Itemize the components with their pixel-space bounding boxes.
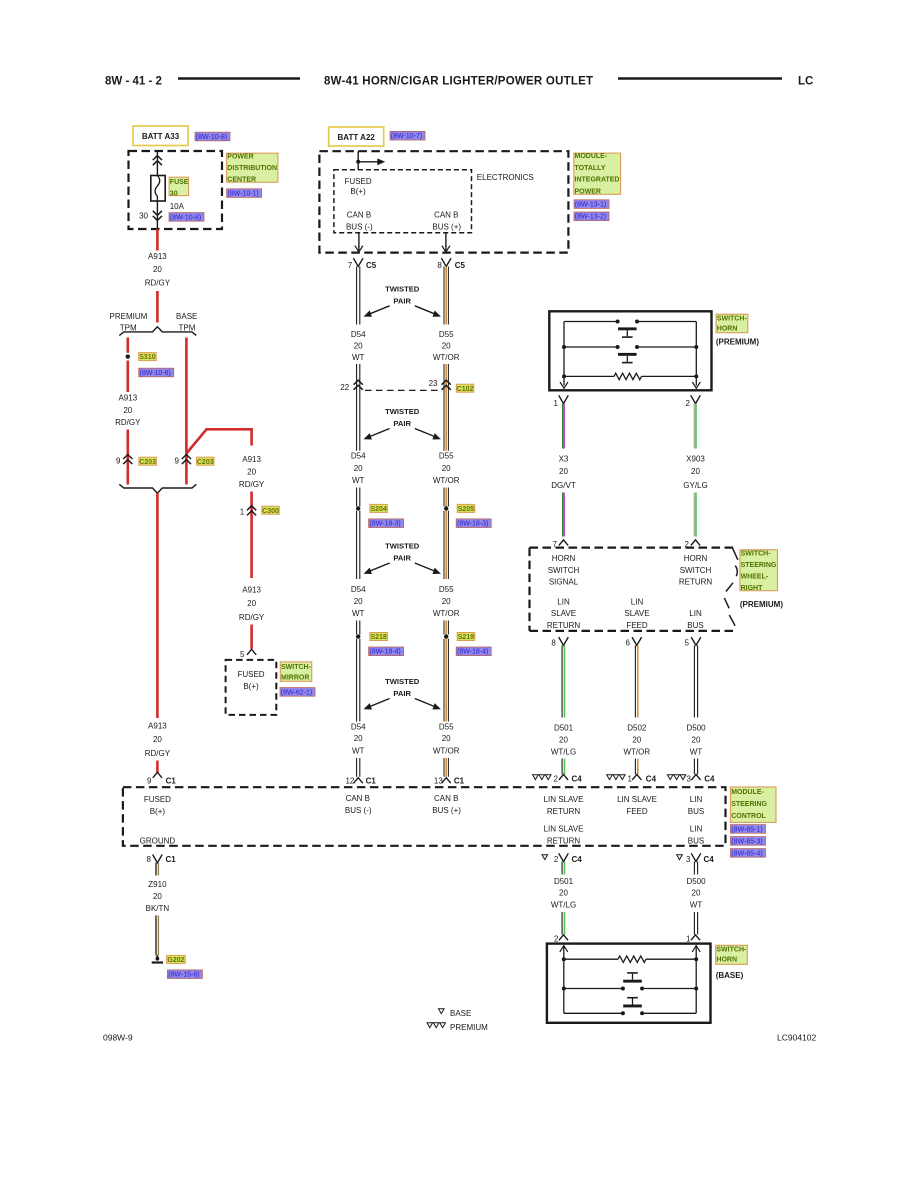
svg-text:D502: D502 xyxy=(627,724,647,733)
svg-text:BUS (+): BUS (+) xyxy=(432,806,461,815)
wire D54 segment xyxy=(356,364,358,451)
svg-text:BUS: BUS xyxy=(687,621,703,630)
wire D501 xyxy=(561,645,563,717)
svg-text:Z910: Z910 xyxy=(148,880,167,889)
label (8W-65-3) xyxy=(731,837,766,846)
svg-text:SWITCH: SWITCH xyxy=(680,566,712,575)
svg-text:2: 2 xyxy=(554,775,559,784)
connector pin 7 into steering wheel switch xyxy=(559,540,568,546)
svg-text:X3: X3 xyxy=(559,455,569,464)
svg-text:20: 20 xyxy=(354,341,363,350)
svg-text:20: 20 xyxy=(442,341,451,350)
svg-text:DISTRIBUTION: DISTRIBUTION xyxy=(227,165,277,172)
svg-text:BUS: BUS xyxy=(688,836,704,845)
svg-text:ELECTRONICS: ELECTRONICS xyxy=(477,173,534,182)
svg-text:INTEGRATED: INTEGRATED xyxy=(575,177,620,184)
svg-text:(8W-18-4): (8W-18-4) xyxy=(369,649,400,656)
connector pin 9 C1 xyxy=(153,772,162,778)
svg-text:A913: A913 xyxy=(242,586,261,595)
svg-text:PAIR: PAIR xyxy=(393,689,411,698)
svg-text:PAIR: PAIR xyxy=(393,296,411,305)
wire D54 segment xyxy=(356,639,358,722)
svg-text:20: 20 xyxy=(691,467,700,476)
svg-text:TPM: TPM xyxy=(120,324,137,333)
svg-text:C1: C1 xyxy=(366,776,377,785)
svg-text:2: 2 xyxy=(686,399,691,408)
svg-text:S218: S218 xyxy=(370,634,386,641)
wire xyxy=(250,625,253,649)
svg-text:20: 20 xyxy=(559,889,568,898)
svg-text:FUSED: FUSED xyxy=(345,177,372,186)
svg-text:WT/OR: WT/OR xyxy=(623,748,650,757)
wire D500 xyxy=(693,645,695,717)
svg-text:S219: S219 xyxy=(458,634,474,641)
svg-text:(PREMIUM): (PREMIUM) xyxy=(716,337,759,346)
svg-text:CONTROL: CONTROL xyxy=(731,813,766,820)
svg-text:20: 20 xyxy=(692,736,701,745)
svg-text:C4: C4 xyxy=(704,775,715,784)
svg-text:SWITCH-: SWITCH- xyxy=(741,550,772,557)
svg-text:(BASE): (BASE) xyxy=(716,971,744,980)
right rail xyxy=(695,947,697,1014)
switch-horn premium box xyxy=(549,311,711,390)
svg-text:2: 2 xyxy=(554,855,559,864)
splice brace bottom xyxy=(119,484,196,493)
svg-text:LIN: LIN xyxy=(557,598,570,607)
svg-text:LIN: LIN xyxy=(631,598,644,607)
svg-text:23: 23 xyxy=(429,379,438,388)
svg-text:20: 20 xyxy=(559,736,568,745)
header rule left xyxy=(178,77,300,79)
svg-text:POWER: POWER xyxy=(575,189,601,196)
svg-text:D55: D55 xyxy=(439,452,454,461)
label (8W-13-1) xyxy=(574,200,609,209)
connector chevrons into fuse xyxy=(153,156,162,161)
legend base marker xyxy=(439,1009,445,1014)
svg-text:30: 30 xyxy=(139,212,148,221)
svg-text:POWER: POWER xyxy=(227,154,253,161)
svg-text:D55: D55 xyxy=(439,585,454,594)
wire A913 from PDC xyxy=(156,229,159,251)
header rule right xyxy=(618,77,782,79)
svg-text:(8W-10-8): (8W-10-8) xyxy=(196,134,227,141)
connector C203 base pin 9 xyxy=(182,455,191,460)
fuse label FUSE 30 xyxy=(169,177,189,195)
svg-text:WHEEL-: WHEEL- xyxy=(741,574,769,581)
svg-text:FEED: FEED xyxy=(626,807,648,816)
power distribution center box xyxy=(129,151,223,229)
horn switch row 1 xyxy=(564,321,618,323)
ground G202 xyxy=(156,955,159,961)
legend premium marker xyxy=(427,1023,433,1028)
svg-text:2: 2 xyxy=(554,935,559,944)
label SWITCH-HORN base xyxy=(716,945,748,964)
svg-text:(8W-65-4): (8W-65-4) xyxy=(731,850,762,857)
svg-text:(8W-65-1): (8W-65-1) xyxy=(731,826,762,833)
svg-text:C102: C102 xyxy=(457,386,474,393)
svg-text:(8W-13-2): (8W-13-2) xyxy=(575,214,606,221)
label SWITCH-STEERING WHEEL-RIGHT xyxy=(740,550,778,591)
svg-text:098W-9: 098W-9 xyxy=(103,1033,133,1043)
svg-text:TWISTED: TWISTED xyxy=(385,542,420,551)
svg-text:HORN: HORN xyxy=(552,554,576,563)
splice brace top xyxy=(119,327,196,336)
svg-text:20: 20 xyxy=(692,889,701,898)
svg-text:BASE: BASE xyxy=(450,1009,471,1018)
svg-text:G202: G202 xyxy=(167,957,184,964)
label SWITCH-MIRROR xyxy=(280,662,311,681)
svg-text:TPM: TPM xyxy=(179,324,196,333)
label POWER DISTRIBUTION CENTER xyxy=(227,153,278,182)
svg-text:12: 12 xyxy=(345,776,354,785)
label (8W-10-1) xyxy=(227,189,262,198)
svg-text:WT: WT xyxy=(352,353,365,362)
svg-text:8: 8 xyxy=(551,639,556,648)
wire D501 xyxy=(561,862,563,875)
svg-text:SWITCH: SWITCH xyxy=(548,566,580,575)
wire X903 xyxy=(693,404,695,449)
svg-text:3: 3 xyxy=(686,855,691,864)
svg-text:CAN B: CAN B xyxy=(434,210,458,219)
svg-text:(8W-13-1): (8W-13-1) xyxy=(575,202,606,209)
wire D500 xyxy=(693,912,695,935)
svg-text:C1: C1 xyxy=(454,776,465,785)
svg-text:FUSED: FUSED xyxy=(144,795,171,804)
svg-text:C203: C203 xyxy=(197,459,214,466)
svg-text:20: 20 xyxy=(354,734,363,743)
svg-text:WT/LG: WT/LG xyxy=(551,748,576,757)
svg-text:(8W-65-3): (8W-65-3) xyxy=(731,838,762,845)
svg-text:HORN: HORN xyxy=(717,326,738,333)
svg-text:8: 8 xyxy=(437,261,442,270)
svg-text:PAIR: PAIR xyxy=(393,554,411,563)
svg-text:1: 1 xyxy=(554,399,559,408)
svg-text:RD/GY: RD/GY xyxy=(145,279,171,288)
svg-text:RETURN: RETURN xyxy=(547,836,581,845)
svg-text:LIN: LIN xyxy=(690,795,703,804)
wire D55 segment xyxy=(443,267,445,325)
svg-text:SLAVE: SLAVE xyxy=(551,609,576,618)
wire D54 segment xyxy=(356,488,358,507)
wire X3 xyxy=(562,493,564,537)
svg-text:C203: C203 xyxy=(139,459,156,466)
left rail xyxy=(563,947,565,1014)
wire D502 xyxy=(634,759,636,775)
wire premium arm xyxy=(127,361,130,393)
label (8W-10-8) xyxy=(169,213,204,222)
svg-text:C4: C4 xyxy=(572,855,583,864)
svg-text:LIN SLAVE: LIN SLAVE xyxy=(617,795,657,804)
premium markers pin 1 C4 xyxy=(607,775,613,780)
svg-text:B(+): B(+) xyxy=(150,807,166,816)
label (8W-65-1) xyxy=(731,825,766,834)
svg-text:A913: A913 xyxy=(118,394,137,403)
svg-text:GROUND: GROUND xyxy=(140,837,176,846)
splice S219 xyxy=(444,634,448,638)
svg-text:TWISTED: TWISTED xyxy=(385,407,420,416)
svg-text:HORN: HORN xyxy=(716,957,737,964)
svg-text:B(+): B(+) xyxy=(243,682,259,691)
svg-text:(8W-10-7): (8W-10-7) xyxy=(391,133,422,140)
svg-text:1: 1 xyxy=(240,507,245,516)
svg-text:WT/LG: WT/LG xyxy=(551,901,576,910)
wire X3 xyxy=(562,404,564,449)
svg-text:WT: WT xyxy=(352,747,365,756)
svg-text:TWISTED: TWISTED xyxy=(385,677,420,686)
svg-text:RETURN: RETURN xyxy=(547,807,581,816)
svg-text:(8W-15-8): (8W-15-8) xyxy=(168,972,199,979)
svg-text:BATT A22: BATT A22 xyxy=(338,133,376,142)
svg-text:STEERING: STEERING xyxy=(741,562,777,569)
svg-text:(PREMIUM): (PREMIUM) xyxy=(740,600,783,609)
svg-text:8W-41 HORN/CIGAR LIGHTER/POWER: 8W-41 HORN/CIGAR LIGHTER/POWER OUTLET xyxy=(324,76,593,88)
svg-text:C1: C1 xyxy=(166,777,177,786)
svg-text:BUS (+): BUS (+) xyxy=(432,223,461,232)
svg-text:D54: D54 xyxy=(351,723,366,732)
svg-text:20: 20 xyxy=(442,597,451,606)
svg-text:BATT A33: BATT A33 xyxy=(142,132,180,141)
svg-text:3: 3 xyxy=(687,775,692,784)
battery feed BATT A33 xyxy=(133,126,188,146)
svg-text:WT: WT xyxy=(352,609,365,618)
svg-text:D500: D500 xyxy=(686,724,706,733)
svg-text:20: 20 xyxy=(153,892,162,901)
svg-text:WT: WT xyxy=(690,901,703,910)
junction node xyxy=(356,160,360,164)
svg-text:BUS: BUS xyxy=(688,807,704,816)
svg-text:SWITCH-: SWITCH- xyxy=(281,664,312,671)
premium markers pin 2 C4 xyxy=(533,775,539,780)
svg-text:8: 8 xyxy=(147,855,152,864)
svg-text:A913: A913 xyxy=(242,455,261,464)
wire xyxy=(250,492,253,579)
svg-text:22: 22 xyxy=(340,383,349,392)
svg-text:BK/TN: BK/TN xyxy=(146,904,170,913)
torn edge marks xyxy=(732,548,738,560)
svg-text:20: 20 xyxy=(153,735,162,744)
svg-text:LIN: LIN xyxy=(689,609,702,618)
wire D501 xyxy=(561,912,563,935)
svg-text:LIN SLAVE: LIN SLAVE xyxy=(544,795,584,804)
svg-text:S205: S205 xyxy=(458,506,474,513)
connector C102 pins 22 23 xyxy=(354,380,363,385)
splice S205 xyxy=(444,506,448,510)
svg-text:D55: D55 xyxy=(439,723,454,732)
svg-text:(8W-10-8): (8W-10-8) xyxy=(170,214,201,221)
svg-text:RD/GY: RD/GY xyxy=(239,613,265,622)
svg-text:20: 20 xyxy=(123,406,132,415)
switch-horn base box xyxy=(547,944,711,1023)
splice S204 xyxy=(356,506,360,510)
internal bus arrow xyxy=(358,161,377,163)
label MODULE-STEERING CONTROL xyxy=(731,787,777,822)
TIPM outer box xyxy=(319,151,568,252)
svg-text:20: 20 xyxy=(247,599,256,608)
svg-text:B(+): B(+) xyxy=(350,187,366,196)
svg-text:RIGHT: RIGHT xyxy=(741,585,764,592)
resistor row xyxy=(564,958,618,960)
splice S310 xyxy=(126,354,130,358)
horn switch row 1 xyxy=(564,988,623,990)
svg-text:GY/LG: GY/LG xyxy=(683,481,707,490)
svg-text:FUSED: FUSED xyxy=(237,670,264,679)
wire D55 segment xyxy=(443,364,445,451)
svg-text:BASE: BASE xyxy=(176,312,197,321)
svg-text:BUS (-): BUS (-) xyxy=(345,806,372,815)
svg-text:MODULE-: MODULE- xyxy=(575,153,608,160)
svg-text:HORN: HORN xyxy=(684,554,708,563)
svg-text:C4: C4 xyxy=(572,775,583,784)
switch-mirror box xyxy=(226,660,277,715)
svg-text:1: 1 xyxy=(628,775,633,784)
svg-text:D54: D54 xyxy=(351,585,366,594)
connector C203 premium pin 9 xyxy=(123,455,132,460)
switch-steering wheel right box xyxy=(530,546,734,548)
svg-text:STEERING: STEERING xyxy=(731,801,767,808)
svg-text:5: 5 xyxy=(685,639,690,648)
TIPM electronics box xyxy=(334,170,472,233)
svg-text:C4: C4 xyxy=(646,775,657,784)
svg-text:CENTER: CENTER xyxy=(227,177,256,184)
wire D54 segment xyxy=(356,758,358,777)
svg-text:TWISTED: TWISTED xyxy=(385,284,420,293)
svg-text:WT/OR: WT/OR xyxy=(433,747,460,756)
label (8W-65-4) xyxy=(731,849,766,858)
connector pin 1 into base horn switch xyxy=(691,935,700,941)
wire D54 segment xyxy=(356,511,358,579)
wire Z910 xyxy=(155,916,157,956)
svg-text:7: 7 xyxy=(348,261,353,270)
label (8W-62-1) xyxy=(280,688,315,697)
TIPM internal feed wire xyxy=(357,151,359,170)
svg-text:S204: S204 xyxy=(370,506,386,513)
main wire A913 down xyxy=(156,493,159,718)
svg-text:20: 20 xyxy=(153,265,162,274)
internal wire CAN B minus xyxy=(358,233,360,252)
premium markers pin 3 C4 xyxy=(667,775,673,780)
horn switch row 2 xyxy=(564,1012,623,1014)
connector pin 2 into base horn switch xyxy=(559,935,568,941)
svg-text:20: 20 xyxy=(442,464,451,473)
svg-text:RD/GY: RD/GY xyxy=(239,480,265,489)
svg-text:9: 9 xyxy=(147,777,152,786)
left rail xyxy=(563,322,565,386)
wire D55 segment xyxy=(443,758,445,777)
wire D55 segment xyxy=(443,639,445,722)
horn switch row 2 xyxy=(564,346,618,348)
wire premium arm xyxy=(127,338,130,353)
svg-text:SLAVE: SLAVE xyxy=(624,609,649,618)
right rail xyxy=(695,322,697,386)
wire D55 segment xyxy=(443,621,445,635)
svg-text:SIGNAL: SIGNAL xyxy=(549,578,579,587)
battery feed BATT A22 xyxy=(329,127,384,146)
wire D501 xyxy=(561,759,563,775)
svg-text:20: 20 xyxy=(632,736,641,745)
wire D54 segment xyxy=(356,621,358,635)
svg-text:PAIR: PAIR xyxy=(393,419,411,428)
wire inside PDC xyxy=(156,151,158,176)
label MODULE-TOTALLY INTEGRATED POWER xyxy=(574,153,621,194)
label SWITCH-HORN xyxy=(716,314,748,333)
svg-text:C1: C1 xyxy=(166,855,177,864)
svg-text:D501: D501 xyxy=(554,724,574,733)
wire A913 xyxy=(156,291,159,323)
svg-text:A913: A913 xyxy=(148,721,167,730)
svg-text:D501: D501 xyxy=(554,877,574,886)
label (8W-10-8) xyxy=(139,368,174,377)
svg-text:20: 20 xyxy=(442,734,451,743)
svg-text:5: 5 xyxy=(240,650,245,659)
svg-text:FEED: FEED xyxy=(626,621,648,630)
svg-text:8W - 41 - 2: 8W - 41 - 2 xyxy=(105,76,162,88)
wire Z910 xyxy=(155,863,157,876)
svg-text:CAN B: CAN B xyxy=(347,210,371,219)
svg-text:WT/OR: WT/OR xyxy=(433,609,460,618)
label (8W-13-2) xyxy=(574,212,609,221)
svg-text:MIRROR: MIRROR xyxy=(281,674,309,681)
module-steering control box xyxy=(123,787,726,846)
svg-text:PREMIUM: PREMIUM xyxy=(450,1023,488,1032)
svg-text:WT/OR: WT/OR xyxy=(433,476,460,485)
svg-text:CAN B: CAN B xyxy=(434,794,458,803)
svg-text:C5: C5 xyxy=(366,261,377,270)
svg-text:9: 9 xyxy=(175,457,180,466)
svg-text:D500: D500 xyxy=(686,877,706,886)
label (8W-10-7) xyxy=(390,131,425,140)
svg-text:MODULE-: MODULE- xyxy=(731,789,764,796)
svg-text:(8W-18-4): (8W-18-4) xyxy=(457,649,488,656)
base marker pin 2 C4 xyxy=(542,855,548,860)
svg-text:TOTALLY: TOTALLY xyxy=(575,165,606,172)
base marker pin 3 C4 xyxy=(677,855,683,860)
label (8W-10-8) xyxy=(195,132,230,141)
svg-text:(8W-10-8): (8W-10-8) xyxy=(140,370,171,377)
svg-text:RD/GY: RD/GY xyxy=(115,418,141,427)
svg-text:6: 6 xyxy=(626,639,631,648)
splice S218 xyxy=(356,634,360,638)
svg-text:(8W-18-3): (8W-18-3) xyxy=(369,521,400,528)
wire D54 segment xyxy=(356,267,358,325)
svg-text:9: 9 xyxy=(116,457,121,466)
svg-text:20: 20 xyxy=(247,468,256,477)
wire base arm xyxy=(185,338,188,485)
wire D55 segment xyxy=(443,488,445,507)
svg-text:13: 13 xyxy=(434,776,443,785)
svg-text:RETURN: RETURN xyxy=(679,578,713,587)
svg-text:RD/GY: RD/GY xyxy=(145,749,171,758)
wire xyxy=(156,761,159,774)
wire D55 segment xyxy=(443,511,445,579)
connector pin 2 into steering wheel switch xyxy=(691,540,700,546)
svg-text:BUS (-): BUS (-) xyxy=(346,223,373,232)
svg-text:PREMIUM: PREMIUM xyxy=(110,312,148,321)
svg-text:D54: D54 xyxy=(351,452,366,461)
svg-text:20: 20 xyxy=(559,467,568,476)
wire D500 xyxy=(693,759,695,775)
svg-text:SWITCH-: SWITCH- xyxy=(716,947,747,954)
svg-text:A913: A913 xyxy=(148,252,167,261)
svg-text:C5: C5 xyxy=(455,261,466,270)
svg-text:X903: X903 xyxy=(686,455,705,464)
svg-text:LIN SLAVE: LIN SLAVE xyxy=(544,824,584,833)
svg-text:20: 20 xyxy=(354,464,363,473)
fuse F30 xyxy=(151,176,165,202)
connector chevrons out of PDC xyxy=(153,216,162,221)
svg-text:FUSE: FUSE xyxy=(170,179,189,186)
wire D502 xyxy=(634,645,636,717)
svg-text:DG/VT: DG/VT xyxy=(551,481,576,490)
